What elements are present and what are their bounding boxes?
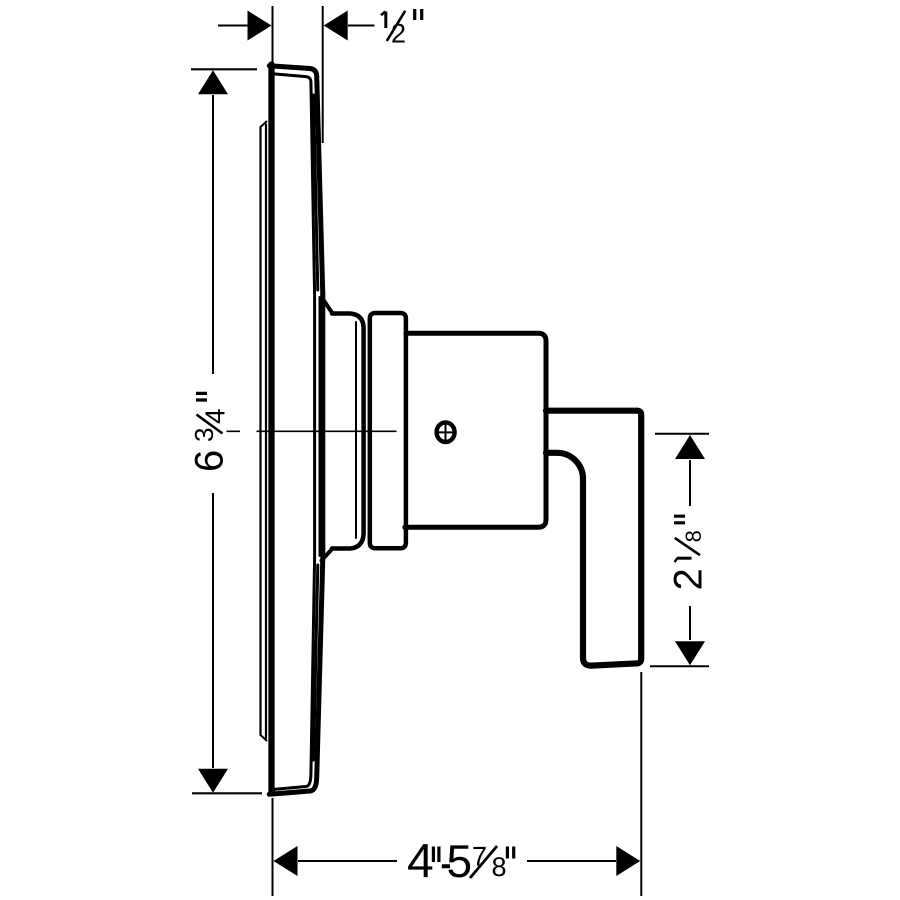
svg-text:4: 4 [407,835,434,888]
svg-text:2: 2 [667,568,711,590]
svg-text:8: 8 [491,852,506,882]
svg-text:8: 8 [681,530,706,542]
svg-text:5: 5 [446,835,472,887]
svg-text:3: 3 [189,428,219,442]
svg-text:6: 6 [188,450,232,472]
